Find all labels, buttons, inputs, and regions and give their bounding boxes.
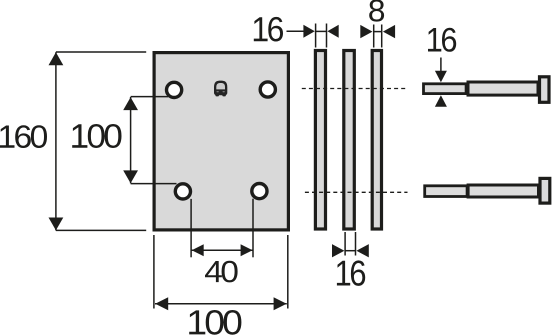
side plate bar 1	[315, 51, 325, 230]
dim 100 plate: arrow left	[155, 297, 168, 310]
dim 100 holes: top extension line	[131, 96, 169, 98]
dim 160: top extension line	[56, 51, 146, 53]
side plate bar 3	[372, 51, 381, 230]
dim 16 bolt: arrow up	[435, 95, 447, 107]
hole top-left	[167, 82, 182, 97]
hole top-right	[260, 82, 275, 97]
bolt 1 head	[540, 77, 550, 103]
dim 40: left extension line	[190, 199, 192, 257]
dim 16 top: right extension line	[326, 24, 328, 48]
dim 16 bolt: leader line	[440, 58, 442, 72]
hole bottom-right	[252, 184, 267, 199]
dim 100 plate: left extension line	[153, 235, 155, 309]
dim 16 bottom: arrow pointing right	[332, 244, 344, 257]
dim 8 top: left extension line	[373, 25, 375, 48]
dim 160: bottom extension line	[56, 229, 146, 231]
dim 100 holes: bottom extension line	[131, 183, 177, 185]
dim 8 top: arrow pointing left	[383, 25, 395, 38]
dim 8 top: arrow pointing right	[360, 25, 372, 38]
dim 16 bolt: label	[428, 28, 456, 52]
dim 100 plate: dimension line	[155, 303, 287, 305]
dim 8 top: connecting segment	[374, 31, 382, 33]
bolt 1 shaft	[424, 84, 467, 94]
dim 16 bottom: left extension line	[344, 232, 346, 256]
dim 16 bottom: connecting segment	[345, 250, 355, 252]
dim 100 holes: dimension line	[130, 97, 132, 183]
dim 16 top: arrow pointing right	[303, 25, 314, 38]
bolt 1 shank	[468, 82, 538, 95]
cable-car icon lights	[217, 91, 219, 92]
dim 160: label	[0, 125, 47, 148]
centerline dashed top	[302, 88, 409, 90]
dim 16 bolt: arrow down	[435, 71, 447, 83]
dim 40: dimension line	[192, 249, 253, 251]
side plate bar 2	[344, 51, 355, 230]
dim 40: arrow left	[192, 244, 204, 256]
cable-car icon feet	[215, 94, 219, 96]
dim 100 holes: label	[72, 124, 121, 148]
dim 40: arrow right	[241, 244, 253, 256]
dim 100 plate: right extension line	[287, 235, 289, 309]
dim 16 top: label	[254, 17, 283, 42]
dim 16 bottom: arrow pointing left	[356, 244, 368, 257]
dim 100 holes: arrow up	[123, 97, 138, 110]
bolt 2 head	[540, 178, 550, 203]
dim 16 bottom: label	[337, 260, 365, 286]
dim 160: dimension line	[55, 52, 57, 230]
dim 16 top: leader line	[287, 30, 305, 32]
dim 16 top: arrow pointing left	[327, 25, 338, 38]
dim 16 top: connecting segment	[316, 30, 327, 32]
bolt 2 shaft	[425, 186, 467, 197]
dim 16 bottom: right extension line	[355, 232, 357, 256]
dim 40: right extension line	[252, 199, 254, 258]
centerline dashed bottom	[305, 191, 408, 193]
dim 8 top: right extension line	[381, 25, 383, 48]
plate (front view)	[154, 53, 288, 230]
dim 100 holes: arrow down	[123, 170, 138, 183]
dim 160: arrow up	[49, 52, 64, 65]
dim 16 top: left extension line	[315, 24, 317, 48]
cable-car icon window	[216, 83, 225, 89]
dim 100 plate: label	[189, 310, 241, 335]
hole bottom-left	[175, 184, 190, 199]
bolt 2 shank	[468, 185, 538, 197]
dim 8 top: label	[369, 0, 384, 22]
dim 160: arrow down	[49, 218, 64, 231]
dim 40: label	[205, 261, 238, 283]
cable-car icon body	[214, 81, 227, 96]
dim 100 plate: arrow right	[274, 297, 287, 310]
